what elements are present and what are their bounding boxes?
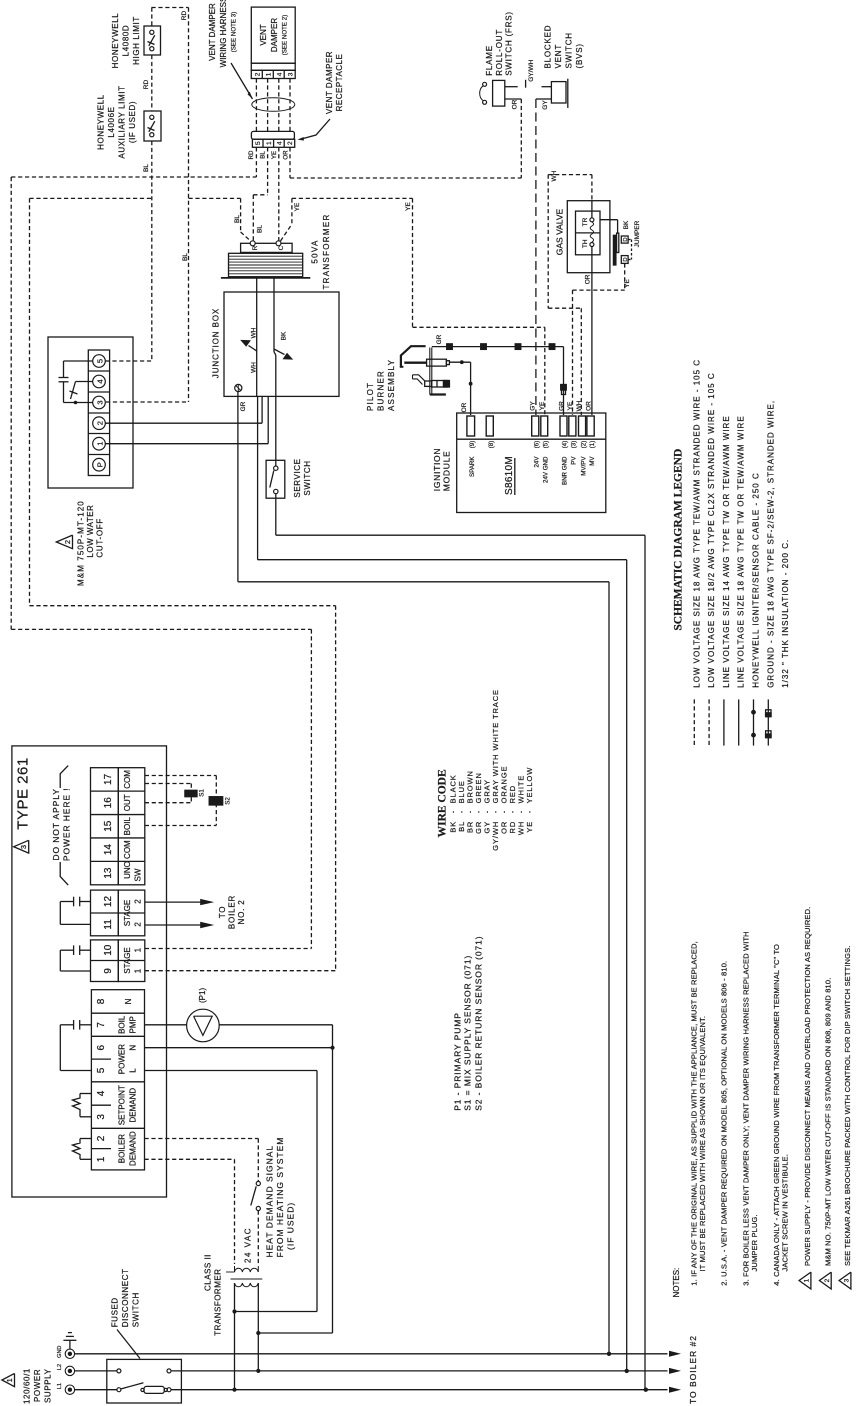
svg-text:50VA: 50VA <box>311 239 320 263</box>
svg-text:VENT: VENT <box>554 44 563 69</box>
leader to receptacle <box>300 119 331 140</box>
auxiliary limit switch L4006E box <box>144 111 161 141</box>
svg-text:POWER SUPPLY - PROVIDE DISCONN: POWER SUPPLY - PROVIDE DISCONNECT MEANS … <box>803 907 812 1266</box>
tekmar control box <box>12 746 167 1197</box>
wire dashed boiler demand T1 to transformer secondary <box>145 1158 235 1160</box>
svg-text:DAMPER: DAMPER <box>270 18 279 52</box>
WH arrow <box>249 346 257 352</box>
wire GR pilot ground to module T4 <box>432 346 564 348</box>
wire junction box neutral to L2 riser <box>257 396 259 559</box>
svg-text:(9): (9) <box>469 441 476 449</box>
wire WH transformer to junction box <box>256 278 258 397</box>
wire YE from jumper to module T3 <box>624 263 626 290</box>
legend sample ground wire with squares <box>767 699 769 745</box>
svg-text:1: 1 <box>266 141 273 145</box>
svg-text:STAGE: STAGE <box>123 947 132 974</box>
warning triangle 2 <box>56 535 72 549</box>
svg-text:VENT: VENT <box>259 24 268 45</box>
wire dashed inner loop top to LWCO riser <box>30 197 152 199</box>
svg-text:BL: BL <box>234 215 241 223</box>
power terminals GND L2 L1 <box>65 1349 74 1358</box>
junction box <box>224 292 339 396</box>
svg-text:TH: TH <box>582 239 589 248</box>
high limit switch L4080D box <box>144 26 161 55</box>
warning note 2 <box>819 1272 831 1289</box>
svg-text:2: 2 <box>96 1135 107 1141</box>
relay contact stage2 <box>80 901 91 903</box>
wire BK transformer to junction box <box>273 278 275 352</box>
resistor setpoint demand <box>80 1093 91 1095</box>
flame sensor bent rod <box>413 375 426 381</box>
svg-text:14: 14 <box>103 844 114 856</box>
LWCO terminal strip <box>88 350 109 476</box>
wire dashed LWCO terminal5 feed horizontal <box>106 360 152 362</box>
svg-text:(P1): (P1) <box>198 988 207 1003</box>
LWCO switch blade terminal4 <box>76 381 93 383</box>
svg-text:MODULE: MODULE <box>442 451 452 492</box>
svg-text:ASSEMBLY: ASSEMBLY <box>387 359 396 411</box>
control terminal strip 13-17 <box>91 768 119 885</box>
svg-text:SPARK: SPARK <box>469 456 476 477</box>
svg-text:TYPE 261: TYPE 261 <box>14 757 31 829</box>
svg-text:WH: WH <box>251 327 258 338</box>
svg-text:L4006E: L4006E <box>107 106 116 137</box>
svg-text:15: 15 <box>103 820 114 832</box>
svg-text:S2 - BOILER RETURN SENSOR (071: S2 - BOILER RETURN SENSOR (071) <box>473 936 483 1111</box>
warning triangle 3 and label TYPE 261 <box>14 840 29 853</box>
svg-text:1: 1 <box>134 968 143 973</box>
svg-text:4: 4 <box>276 141 283 145</box>
svg-text:NOTES:: NOTES: <box>672 1268 681 1298</box>
wire RD dashed from high limit to BL riser (top) <box>152 7 189 9</box>
wire GY from BVS to ignition module T6 <box>536 98 552 100</box>
svg-text:BL: BL <box>182 253 189 261</box>
svg-text:RECEPTACLE: RECEPTACLE <box>335 54 344 112</box>
wire dashed high limit top stub <box>151 8 153 27</box>
svg-text:TO BOILER #2: TO BOILER #2 <box>688 1335 698 1404</box>
svg-text:3: 3 <box>96 1114 107 1120</box>
LWCO terminal circles 5 4 3 2 1 P <box>93 355 106 368</box>
svg-text:6: 6 <box>96 1044 107 1050</box>
svg-text:POWER HERE !: POWER HERE ! <box>62 787 72 861</box>
svg-text:PILOT: PILOT <box>366 382 375 411</box>
svg-text:GY: GY <box>542 100 549 110</box>
receptacle wire OR <box>289 147 291 178</box>
BK jumper dashed link <box>628 239 631 241</box>
svg-text:SERVICE: SERVICE <box>293 458 302 497</box>
svg-text:HONEYWELL: HONEYWELL <box>97 94 106 150</box>
svg-text:10: 10 <box>103 944 114 956</box>
wire dashed boiler demand T2 to heat demand switch <box>145 1138 259 1140</box>
svg-text:4: 4 <box>96 1090 107 1096</box>
svg-text:WIRE CODE: WIRE CODE <box>436 769 448 837</box>
svg-text:MV: MV <box>589 456 596 466</box>
svg-text:(3): (3) <box>571 441 578 449</box>
inner dashed demand loop left <box>29 198 31 605</box>
svg-text:2: 2 <box>287 141 294 145</box>
svg-text:7: 7 <box>96 1022 107 1028</box>
stage2 output arrows to boiler no.2 <box>145 901 201 903</box>
wire LWCO T1 to junction box <box>106 443 269 445</box>
svg-text:HIGH LIMIT: HIGH LIMIT <box>132 16 141 65</box>
warning note 3 <box>839 1272 851 1289</box>
svg-text:(BVS): (BVS) <box>575 43 584 68</box>
svg-text:1: 1 <box>266 72 273 76</box>
svg-text:JUNCTION BOX: JUNCTION BOX <box>212 308 221 378</box>
svg-text:2: 2 <box>96 421 105 425</box>
svg-text:IGNITION: IGNITION <box>432 448 442 491</box>
wire BL dashed riser x188.5 <box>188 8 190 403</box>
svg-text:P1 - PRIMARY PUMP: P1 - PRIMARY PUMP <box>453 1012 463 1111</box>
resistor boiler demand <box>80 1138 91 1140</box>
svg-text:BOIL: BOIL <box>123 817 132 836</box>
svg-text:16: 16 <box>103 797 114 809</box>
svg-text:LINE VOLTAGE SIZE 14 AWG TYPE: LINE VOLTAGE SIZE 14 AWG TYPE TW OR TEW/… <box>722 415 731 687</box>
svg-text:17: 17 <box>103 773 114 785</box>
svg-text:WH: WH <box>251 362 258 373</box>
transformer 50VA base <box>221 277 310 279</box>
receptacle wire BL <box>267 147 269 195</box>
wire OR safety dashed horizontal y177 right part to FRS <box>290 177 521 179</box>
svg-text:SWITCH (FRS): SWITCH (FRS) <box>505 11 514 76</box>
svg-text:1: 1 <box>96 442 105 446</box>
svg-text:12: 12 <box>103 896 114 908</box>
wire RD dashed between limits <box>151 55 153 111</box>
svg-text:VENT DAMPER: VENT DAMPER <box>325 51 334 114</box>
svg-text:HONEYWELL IGNITER/SENSOR CABLE: HONEYWELL IGNITER/SENSOR CABLE - 250 C <box>752 472 761 688</box>
svg-text:POWER: POWER <box>118 1044 127 1074</box>
svg-text:2. U.S.A. - VENT DAMPER REQUI: 2. U.S.A. - VENT DAMPER REQUIRED ON MODE… <box>719 961 728 1286</box>
svg-text:3: 3 <box>287 72 294 76</box>
gas valve box <box>567 201 610 273</box>
svg-text:YE: YE <box>624 279 631 288</box>
svg-text:SEE TEKMAR A261 BROCHURE PACKE: SEE TEKMAR A261 BROCHURE PACKED WITH CON… <box>843 945 852 1266</box>
transformer 50VA body <box>229 253 303 276</box>
wire RD/OR safety dashed horizontal y177 left part <box>11 176 256 178</box>
svg-text:LOW WATER: LOW WATER <box>86 505 95 558</box>
flame roll-out switch FRS <box>493 80 505 106</box>
bracket for terminals 13-17 top <box>60 766 68 788</box>
svg-text:(IF USED): (IF USED) <box>128 101 137 143</box>
LWCO internal float switch wiring <box>64 360 93 362</box>
junction box ground screw <box>235 384 242 391</box>
svg-text:JACKET SCREW IN VESTIBULE.: JACKET SCREW IN VESTIBULE. <box>780 1154 789 1272</box>
svg-text:OR: OR <box>283 150 290 160</box>
svg-text:PV: PV <box>571 456 578 465</box>
pilot burner mounting bracket <box>429 348 431 395</box>
power terminal block 1-8 <box>91 990 144 1170</box>
ignition module S8610M box <box>457 413 606 513</box>
svg-text:L1: L1 <box>57 1383 63 1389</box>
wire LWCO T2 to junction box <box>106 422 263 424</box>
relay contact pump <box>80 1024 92 1026</box>
svg-text:2: 2 <box>134 922 143 927</box>
svg-text:SWITCH: SWITCH <box>303 460 312 495</box>
svg-text:GROUND - SIZE 18 AWG TYPE SF-2: GROUND - SIZE 18 AWG TYPE SF-2/SEW-2, ST… <box>766 400 775 688</box>
svg-text:4: 4 <box>96 379 105 383</box>
svg-text:JUMPER PLUG.: JUMPER PLUG. <box>750 1214 759 1271</box>
bracket for terminals 13-17 bottom <box>60 862 68 885</box>
svg-text:YELLOW: YELLOW <box>525 767 534 804</box>
svg-text:4: 4 <box>277 72 284 76</box>
svg-text:(IF USED): (IF USED) <box>286 1202 296 1250</box>
svg-text:RD: RD <box>248 150 255 159</box>
svg-text:AUXILIARY LIMIT: AUXILIARY LIMIT <box>118 85 127 158</box>
svg-text:DEMAND: DEMAND <box>129 1088 138 1123</box>
svg-text:(SEE NOTE 3): (SEE NOTE 3) <box>231 12 238 53</box>
svg-text:L4080D: L4080D <box>122 25 131 57</box>
wire dashed stage1 terminal9 to inner loop <box>145 970 336 972</box>
svg-text:DISCONNECT: DISCONNECT <box>121 1268 130 1327</box>
vent damper receptacle pins 5 1 4 2 <box>252 139 294 147</box>
svg-text:GY: GY <box>530 401 537 411</box>
svg-text:OR: OR <box>461 402 468 412</box>
svg-text:3: 3 <box>19 845 28 849</box>
receptacle wire RD <box>255 147 257 177</box>
svg-text:COM: COM <box>123 770 132 789</box>
svg-text:ROLL-OUT: ROLL-OUT <box>495 29 504 76</box>
svg-text:N: N <box>129 1045 138 1051</box>
svg-text:YE: YE <box>525 821 534 833</box>
svg-text:SW: SW <box>134 868 143 881</box>
wire BL dashed aux limit down to LWCO riser <box>151 141 153 361</box>
svg-text:RD: RD <box>143 80 150 90</box>
svg-text:YE: YE <box>294 202 301 211</box>
svg-text:BOILER: BOILER <box>228 895 237 929</box>
svg-text:OUT: OUT <box>123 794 132 811</box>
wire OR from FRS down to safety line <box>505 98 522 100</box>
svg-text:GR: GR <box>240 401 247 411</box>
stage 2 terminal block 11 12 <box>91 890 119 936</box>
svg-text:BL: BL <box>143 164 150 172</box>
pilot burner hood bracket <box>401 346 426 367</box>
svg-text:CUT-OFF: CUT-OFF <box>96 518 105 558</box>
svg-text:YE: YE <box>567 401 574 410</box>
svg-text:IT MUST BE REPLACED WITH WIRE: IT MUST BE REPLACED WITH WIRE AS SHOWN O… <box>698 1016 707 1272</box>
warning note 1 <box>799 1272 811 1289</box>
svg-text:9: 9 <box>103 968 114 974</box>
wire pump to neutral junction <box>219 1024 332 1026</box>
svg-text:R: R <box>252 245 259 250</box>
svg-text:24 VAC: 24 VAC <box>244 1227 253 1263</box>
svg-text:WH: WH <box>576 400 583 411</box>
legend sample igniter cable with dots <box>753 699 755 745</box>
vent damper box <box>251 7 295 63</box>
svg-text:FUSED: FUSED <box>111 1297 120 1327</box>
transformer primary leads <box>234 1283 236 1390</box>
svg-text:3: 3 <box>96 400 105 404</box>
svg-text:BK: BK <box>281 331 288 340</box>
svg-text:DO NOT APPLY: DO NOT APPLY <box>51 788 61 860</box>
wire dashed stage1 terminal10 to outer loop <box>145 948 312 950</box>
leader to harness ellipse <box>231 63 253 99</box>
svg-text:RD: RD <box>181 11 188 21</box>
svg-text:(1): (1) <box>589 441 596 449</box>
svg-text:MV/PV: MV/PV <box>580 456 587 476</box>
svg-text:(8): (8) <box>488 441 495 449</box>
svg-text:TR: TR <box>582 217 589 226</box>
wire junction box to service switch <box>275 396 277 466</box>
svg-text:8: 8 <box>96 998 107 1004</box>
svg-text:VENT DAMPER: VENT DAMPER <box>208 3 217 61</box>
svg-text:FROM HEATING SYSTEM: FROM HEATING SYSTEM <box>275 1137 285 1258</box>
svg-text:M&M NO. 750P-MT LOW WATER CUT-: M&M NO. 750P-MT LOW WATER CUT-OFF IS STA… <box>823 978 832 1266</box>
svg-text:24V GND: 24V GND <box>543 456 550 483</box>
svg-text:(6): (6) <box>534 441 541 449</box>
svg-text:GND: GND <box>57 1346 63 1358</box>
svg-text:2: 2 <box>134 899 143 904</box>
igniter electrode rod <box>404 362 426 364</box>
svg-text:BURNER: BURNER <box>377 370 386 411</box>
leader to disconnect box <box>117 1330 140 1359</box>
svg-text:BL: BL <box>260 151 267 159</box>
svg-text:WH: WH <box>551 170 558 181</box>
svg-text:11: 11 <box>103 919 114 930</box>
svg-text:120/60/1: 120/60/1 <box>23 1368 32 1404</box>
svg-text:(4): (4) <box>562 441 569 449</box>
svg-text:(2): (2) <box>580 441 587 449</box>
svg-text:L: L <box>129 1068 138 1073</box>
harness loop ellipse <box>252 98 295 112</box>
svg-text:TO: TO <box>218 906 227 919</box>
svg-text:UNO: UNO <box>123 861 132 879</box>
relay contact stage1 <box>80 949 91 951</box>
wire dashed LWCO terminal3 to riser <box>106 401 189 403</box>
svg-text:5: 5 <box>255 141 262 145</box>
wire service switch to L1 riser <box>275 494 277 536</box>
wire L from control terminal 5 <box>145 1070 318 1072</box>
svg-text:S1 = MIX SUPPLY SENSOR (071): S1 = MIX SUPPLY SENSOR (071) <box>463 955 473 1111</box>
outer dashed demand loop left <box>10 177 12 629</box>
svg-text:FLAME: FLAME <box>485 45 494 76</box>
svg-text:N: N <box>124 998 133 1004</box>
svg-text:GAS VALVE: GAS VALVE <box>555 208 565 255</box>
wire OR gas valve to module T1 <box>591 273 593 415</box>
svg-text:HEAT DEMAND SIGNAL: HEAT DEMAND SIGNAL <box>265 1145 275 1258</box>
svg-text:JUMPER: JUMPER <box>634 220 641 247</box>
sensor S2 <box>209 797 223 805</box>
GND line to boiler 2 <box>75 1353 668 1355</box>
svg-text:GY/WH: GY/WH <box>528 59 535 81</box>
L1 line through fuse <box>75 1389 117 1391</box>
svg-text:TRANSFORMER: TRANSFORMER <box>322 213 331 289</box>
svg-text:POWER: POWER <box>33 1369 42 1402</box>
wire junction box ground to GND riser <box>237 392 239 582</box>
svg-text:LOW VOLTAGE SIZE 18 AWG TYPE T: LOW VOLTAGE SIZE 18 AWG TYPE TEW/AWM STR… <box>692 359 701 688</box>
fused disconnect switch box <box>107 1359 182 1403</box>
svg-text:1: 1 <box>96 1156 107 1162</box>
svg-text:BK: BK <box>623 220 630 229</box>
svg-text:13: 13 <box>103 867 114 879</box>
svg-text:S8610M: S8610M <box>504 456 515 495</box>
wire N riser to transformer primary <box>258 1332 332 1334</box>
svg-text:YE: YE <box>271 151 278 159</box>
blocked vent switch BVS <box>551 82 566 103</box>
service switch box <box>266 460 285 498</box>
svg-text:LOW VOLTAGE SIZE 18/2 AWG TYPE: LOW VOLTAGE SIZE 18/2 AWG TYPE CL2X STRA… <box>707 372 716 687</box>
warning triangle 1 <box>2 1373 15 1386</box>
flame sensor body <box>425 381 432 386</box>
svg-text:TRANSFORMER: TRANSFORMER <box>214 1269 223 1336</box>
svg-text:1/32 " THK INSULATION - 200 C.: 1/32 " THK INSULATION - 200 C. <box>781 539 790 688</box>
svg-text:(SEE NOTE 2): (SEE NOTE 2) <box>282 15 289 56</box>
svg-text:WIRING HARNESS: WIRING HARNESS <box>219 0 228 67</box>
svg-text:1: 1 <box>5 1378 14 1382</box>
gas valve inner terminal box TH TR <box>576 211 601 255</box>
stage 1 terminal block 9 10 <box>91 940 119 982</box>
earth ground symbol <box>69 1340 71 1349</box>
igniter body <box>427 359 447 366</box>
svg-text:SCHEMATIC DIAGRAM LEGEND: SCHEMATIC DIAGRAM LEGEND <box>672 449 684 631</box>
heat demand switch <box>256 1181 260 1185</box>
svg-text:GR: GR <box>436 334 443 344</box>
vent damper plug pins 2 1 4 3 <box>251 70 295 78</box>
svg-text:1: 1 <box>804 1278 811 1282</box>
svg-text:(5): (5) <box>543 441 550 449</box>
svg-text:SETPOINT: SETPOINT <box>118 1085 127 1125</box>
receptacle wire YE <box>278 147 280 240</box>
svg-text:GR: GR <box>558 401 565 411</box>
svg-text:3: 3 <box>844 1278 851 1282</box>
svg-text:P: P <box>96 462 105 467</box>
low water cut-off box <box>48 337 133 488</box>
svg-text:M&M 750P-MT-120: M&M 750P-MT-120 <box>77 500 86 586</box>
svg-text:OR: OR <box>585 401 592 411</box>
gas valve TR to jumper plate <box>600 219 618 221</box>
svg-text:COM: COM <box>123 840 132 859</box>
svg-text:BOIL: BOIL <box>118 1015 127 1034</box>
svg-text:OR: OR <box>585 274 592 284</box>
svg-text:BL: BL <box>257 225 264 233</box>
wire WH dashed to gas valve and module T2 <box>548 174 592 176</box>
svg-text:S2: S2 <box>225 797 232 805</box>
vent damper plug band <box>251 63 295 70</box>
L2 line through disconnect <box>75 1370 117 1372</box>
svg-text:NO. 2: NO. 2 <box>237 900 246 925</box>
svg-text:2: 2 <box>255 72 262 76</box>
svg-text:SWITCH: SWITCH <box>132 1292 141 1327</box>
wire YE dashed transformer C to ignition module T5 <box>281 224 292 241</box>
svg-text:S1: S1 <box>199 789 206 797</box>
svg-text:YE: YE <box>539 401 546 410</box>
svg-text:CLASS II: CLASS II <box>204 1254 213 1291</box>
svg-text:BLOCKED: BLOCKED <box>544 25 553 69</box>
svg-text:24V: 24V <box>534 456 541 468</box>
BK arrow <box>274 349 285 355</box>
gas valve operator coil <box>591 201 593 218</box>
svg-text:SWITCH: SWITCH <box>565 32 574 68</box>
wire BL dashed riser to transformer R <box>189 197 241 199</box>
sensor wiring dashed terminals 17 16 15 <box>145 775 217 777</box>
harness wires dashed <box>255 79 257 132</box>
svg-text:BOILER: BOILER <box>118 1134 127 1164</box>
svg-text:YE: YE <box>405 202 412 211</box>
class II transformer symbol <box>235 1268 259 1272</box>
ignition module terminals <box>467 416 475 436</box>
wire N from control terminal 6 <box>145 1047 333 1049</box>
svg-text:BNR GND: BNR GND <box>562 456 569 485</box>
transformer 50VA terminal strip with R C <box>241 243 293 252</box>
svg-text:PMP: PMP <box>129 1016 138 1033</box>
wire OR spark to module T9 <box>449 361 470 363</box>
vent damper receptacle band <box>251 131 294 139</box>
wire FRS to BVS with GY/WH label <box>505 86 518 88</box>
jumper D terminals <box>621 236 628 243</box>
svg-text:SUPPLY: SUPPLY <box>44 1368 53 1403</box>
svg-text:1: 1 <box>134 947 143 952</box>
svg-text:5: 5 <box>96 359 105 363</box>
svg-text:LINE VOLTAGE SIZE 18 AWG TYPE: LINE VOLTAGE SIZE 18 AWG TYPE TW OR TEW/… <box>737 415 746 687</box>
